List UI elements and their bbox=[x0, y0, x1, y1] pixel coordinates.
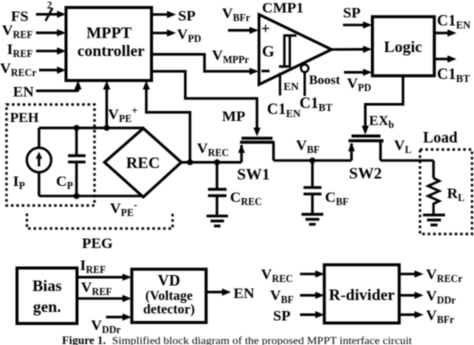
output SP wire bbox=[152, 13, 169, 16]
MPPT controller U1 box bbox=[66, 8, 152, 81]
svg-text:R-divider: R-divider bbox=[329, 287, 395, 304]
VD voltage detector box bbox=[132, 269, 206, 322]
wire VREF to VD bbox=[77, 297, 124, 300]
output VPD wire bbox=[152, 32, 169, 35]
svg-text:Boost: Boost bbox=[309, 72, 341, 87]
PEH dotted box bbox=[7, 105, 95, 206]
svg-text:SP: SP bbox=[343, 6, 361, 22]
pin minus label bbox=[262, 70, 270, 73]
svg-text:FS: FS bbox=[11, 9, 29, 25]
output VDDr wire bbox=[399, 294, 415, 297]
wire IREF to VD bbox=[77, 276, 124, 279]
transistor EXb SW2 bbox=[352, 135, 381, 138]
op-amp CMP1 triangle bbox=[259, 15, 332, 85]
wire VREC rail left bbox=[181, 161, 241, 164]
pin EN stub CMP1 bbox=[279, 73, 281, 96]
junction dot VREC node bbox=[187, 159, 193, 165]
svg-text:SW1: SW1 bbox=[237, 167, 270, 184]
output VBFr wire bbox=[399, 313, 415, 316]
wire IREF input bbox=[36, 50, 59, 53]
current source IP bbox=[27, 148, 51, 172]
svg-text:MP: MP bbox=[222, 109, 245, 125]
wire MPPT to MP gate bbox=[152, 71, 258, 128]
junction dot CREC tap bbox=[214, 159, 220, 165]
wire SP to Logic bbox=[343, 24, 364, 27]
wire VPE- bottom rail bbox=[39, 195, 143, 198]
hysteresis symbol bbox=[279, 36, 297, 67]
wire VPE+ top rail bbox=[39, 127, 143, 130]
ground CREC bbox=[207, 215, 229, 218]
svg-text:PEG: PEG bbox=[82, 236, 113, 252]
wire VMPPr from MPPT to CMP1 minus bbox=[152, 54, 251, 71]
svg-text:SW2: SW2 bbox=[349, 166, 382, 183]
resistor RL bbox=[428, 178, 439, 215]
svg-text:gen.: gen. bbox=[33, 299, 61, 316]
svg-text:SP: SP bbox=[178, 9, 196, 25]
junction dot CP top bbox=[74, 125, 80, 131]
capacitor CP bbox=[75, 128, 78, 156]
svg-text:PEH: PEH bbox=[10, 111, 39, 126]
ground RL bbox=[423, 214, 445, 217]
ground CBF bbox=[302, 213, 324, 216]
svg-text:Simplified block diagram of th: Simplified block diagram of the proposed… bbox=[112, 335, 412, 345]
Logic box bbox=[372, 17, 434, 76]
svg-text:Logic: Logic bbox=[384, 39, 422, 56]
transistor MP SW1 bbox=[242, 137, 273, 140]
Bias gen box bbox=[17, 268, 77, 324]
wire VBF to R-divider bbox=[300, 294, 317, 297]
svg-text:Bias: Bias bbox=[32, 278, 61, 295]
wire VPD to Logic bbox=[344, 71, 364, 74]
junction dot VPE+ node bbox=[104, 125, 110, 131]
svg-text:Load: Load bbox=[423, 130, 458, 147]
svg-text:Figure 1.: Figure 1. bbox=[62, 335, 106, 345]
wire VRECr input bbox=[39, 69, 59, 72]
pin Boost bubble bbox=[301, 65, 309, 73]
junction dot VBF node bbox=[309, 158, 315, 164]
wire FS input bbox=[36, 13, 59, 16]
wire VREF input bbox=[36, 31, 59, 34]
bus slash FS bbox=[46, 8, 53, 21]
PEG dotted bracket bbox=[27, 214, 173, 229]
svg-text:EN: EN bbox=[234, 286, 255, 302]
svg-text:G: G bbox=[262, 44, 275, 61]
svg-text:+: + bbox=[261, 21, 270, 38]
svg-text:EN: EN bbox=[284, 81, 299, 93]
svg-text:MPPT: MPPT bbox=[86, 25, 132, 42]
junction dot CP bottom bbox=[74, 193, 80, 199]
svg-text:CMP1: CMP1 bbox=[262, 1, 304, 17]
wire Boost stub bbox=[304, 72, 306, 96]
rectifier REC diamond bbox=[105, 128, 182, 197]
svg-text:2: 2 bbox=[47, 1, 52, 12]
output VRECr wire bbox=[399, 273, 415, 276]
svg-text:SP: SP bbox=[273, 309, 291, 325]
capacitor CBF bbox=[311, 161, 314, 188]
wire SP to R-divider bbox=[300, 313, 317, 316]
svg-text:controller: controller bbox=[77, 43, 144, 60]
wire Logic to SW2 gate bbox=[365, 76, 403, 127]
wire VDDr to VD bbox=[106, 316, 124, 319]
wire VBFr input bbox=[228, 29, 250, 32]
Load dotted box bbox=[420, 150, 472, 235]
output C1EN wire bbox=[434, 32, 448, 35]
svg-text:detector): detector) bbox=[143, 302, 195, 317]
wire EN output of VD bbox=[206, 291, 222, 294]
svg-text:EN: EN bbox=[13, 85, 34, 101]
wire VPE+ sense to MPPT bbox=[105, 90, 108, 128]
output C1BT wire bbox=[434, 58, 448, 61]
wire VREC sense to MPPT bbox=[146, 90, 190, 163]
wire CMP1 output to Logic bbox=[332, 48, 365, 51]
wire VL rail bbox=[381, 159, 434, 162]
svg-text:VD: VD bbox=[158, 273, 180, 290]
wire EN to MPPT bottom bbox=[36, 90, 78, 93]
R-divider box bbox=[324, 265, 399, 323]
wire VBF rail bbox=[274, 159, 352, 162]
wire VREC to R-divider bbox=[300, 273, 317, 276]
capacitor CREC bbox=[216, 162, 219, 189]
wire VL down to RL bbox=[432, 161, 435, 179]
svg-text:REC: REC bbox=[126, 155, 160, 172]
